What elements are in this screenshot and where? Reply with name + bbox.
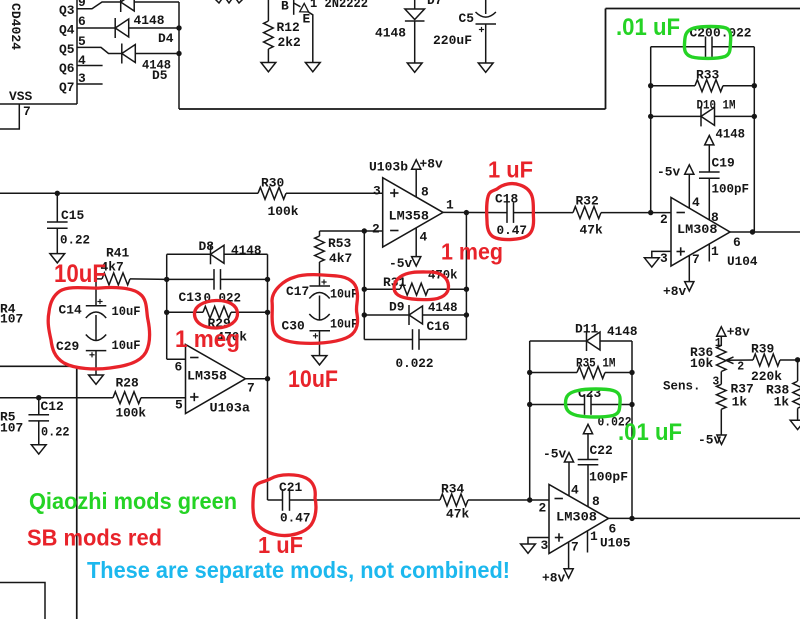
svg-text:10uF: 10uF (330, 317, 358, 332)
svg-text:7: 7 (23, 104, 31, 119)
svg-text:220uF: 220uF (433, 33, 472, 48)
wire C20 row right (712, 46, 754, 48)
wire R36 to R37 (720, 372, 722, 385)
svg-text:4148: 4148 (607, 324, 638, 339)
wire D11 row (530, 340, 587, 342)
wire D3 to bus (134, 1, 179, 3)
wire C23 row (530, 404, 585, 406)
C5 plus mark (479, 29, 484, 31)
red circle around R31 (394, 272, 448, 300)
plus input U104 (677, 251, 685, 253)
wire D9 to rail (423, 314, 467, 316)
svg-text:4: 4 (420, 230, 428, 245)
svg-text:VSS: VSS (9, 89, 32, 104)
svg-text:4148: 4148 (231, 243, 262, 258)
C17 plus mark (321, 281, 326, 283)
svg-text:1 meg: 1 meg (175, 326, 240, 353)
junction D9 right (464, 312, 469, 317)
svg-text:107: 107 (0, 421, 23, 436)
svg-text:10uF: 10uF (330, 287, 358, 302)
junction D10 left (648, 114, 653, 119)
wire U104 pin 3 to ground (652, 251, 671, 257)
resistor R41 (102, 273, 130, 285)
wire right rail x267 (D8 row to C21) (267, 254, 269, 500)
power arrow above C22 (583, 424, 592, 433)
svg-text:D5: D5 (152, 68, 168, 83)
wire D8 to right rail (224, 253, 268, 255)
svg-text:4: 4 (692, 195, 700, 210)
svg-text:0.22: 0.22 (41, 425, 70, 440)
junction U104 output (750, 229, 755, 234)
wire VSS pin 7 stub (0, 104, 19, 129)
svg-text:R28: R28 (116, 376, 139, 391)
resistor R30 (258, 187, 286, 199)
diode D9 (408, 305, 410, 325)
svg-text:6: 6 (175, 360, 183, 375)
wire U103a pin 6 (167, 358, 186, 360)
svg-text:3: 3 (660, 251, 668, 266)
svg-text:1 uF: 1 uF (488, 157, 533, 183)
wire left rail U105 network (529, 341, 531, 500)
svg-text:1: 1 (711, 244, 719, 259)
power arrow -5v U104 pin 4 (685, 165, 694, 174)
wire U104 pin 7 (688, 255, 690, 281)
resistor R32 (573, 207, 601, 219)
junction pin2-rail (362, 228, 367, 233)
junction C23 left (527, 402, 532, 407)
diode D4 (114, 18, 116, 38)
svg-text:-5v: -5v (698, 433, 721, 448)
ground under D7 (407, 63, 422, 72)
svg-text:C18: C18 (495, 192, 518, 207)
C30 plus mark (313, 335, 318, 337)
wire C22 to U105 pin 8 (587, 465, 589, 507)
svg-text:7: 7 (247, 381, 255, 396)
junction U105 pin 2 (527, 497, 532, 502)
resistor R34 (440, 494, 468, 506)
capacitor C20 (705, 37, 707, 58)
wire diode bus vertical (178, 2, 180, 109)
junction D9 left (362, 312, 367, 317)
svg-text:Q6: Q6 (59, 61, 75, 76)
svg-text:U104: U104 (727, 254, 758, 269)
svg-text:7: 7 (692, 252, 700, 267)
minus input U104 (677, 212, 685, 214)
svg-text:2: 2 (737, 361, 744, 374)
svg-text:1k: 1k (774, 395, 790, 410)
junction on bus at D4 row (176, 25, 181, 30)
svg-text:Q3: Q3 (59, 3, 75, 18)
svg-text:47k: 47k (446, 507, 469, 522)
svg-text:+8v: +8v (420, 157, 443, 172)
svg-text:D11: D11 (575, 322, 598, 337)
minus input U105 (555, 498, 563, 500)
svg-text:R39: R39 (751, 342, 774, 357)
wire D9 row (364, 314, 409, 316)
svg-text:.01 uF: .01 uF (618, 419, 682, 446)
junction R33 right (752, 83, 757, 88)
op-amp U105 (549, 484, 609, 553)
svg-text:10k: 10k (690, 356, 713, 371)
capacitor C29 curved plate (86, 335, 106, 341)
resistor R28 (113, 392, 141, 404)
svg-text:D8: D8 (199, 239, 215, 254)
junction U105 output (629, 516, 634, 521)
svg-text:C29: C29 (56, 339, 79, 354)
wire R39 to R38 junction (780, 359, 798, 361)
op-amp U103a (186, 345, 246, 414)
plus input U105 (555, 537, 563, 539)
svg-text:1k: 1k (732, 395, 748, 410)
svg-text:6: 6 (78, 14, 86, 29)
wire U103a pin 5 row (0, 397, 113, 399)
svg-text:10uF: 10uF (288, 366, 338, 393)
wire arrow to C22 (587, 434, 589, 460)
wire mid-left box right edge (76, 366, 78, 619)
junction C13 right (265, 277, 270, 282)
svg-text:10uF: 10uF (112, 338, 141, 353)
transistor Q? 2N2222 (clipped) (293, 0, 295, 15)
junction R29 left (164, 310, 169, 315)
svg-text:8: 8 (421, 185, 429, 200)
wire R41 to feedback box (130, 278, 167, 281)
capacitor C29 straight plate (86, 350, 107, 352)
svg-text:100k: 100k (116, 406, 147, 421)
capacitor C12 (28, 414, 49, 416)
svg-text:C19: C19 (712, 156, 735, 171)
resistor R35 (577, 367, 605, 379)
wire Q4 pin to D4 (77, 27, 115, 29)
capacitor C5 straight plate (476, 23, 497, 25)
power arrow -5v pot (717, 435, 726, 444)
svg-text:4148: 4148 (134, 13, 165, 28)
wire feedback box left edge (166, 254, 168, 359)
resistor (clipped at top edge) (214, 0, 244, 3)
svg-text:R53: R53 (328, 236, 351, 251)
svg-text:.01 uF: .01 uF (616, 14, 680, 41)
wire D4 to bus (129, 27, 179, 29)
svg-text:1: 1 (590, 529, 598, 544)
wire R32 to U104 pin 2 (601, 212, 671, 214)
wire C13 row (167, 278, 214, 280)
wire to D7 (414, 0, 416, 9)
svg-text:-5v: -5v (543, 447, 566, 462)
wire U104 output (730, 231, 800, 233)
svg-text:D9: D9 (389, 300, 404, 315)
svg-text:0.47: 0.47 (280, 511, 311, 526)
junction D10 right (752, 114, 757, 119)
svg-text:CD4024: CD4024 (8, 3, 23, 50)
junction R35 left (527, 370, 532, 375)
svg-text:B: B (281, 0, 289, 14)
junction C12 (36, 395, 41, 400)
capacitor C16 (412, 329, 414, 350)
svg-text:LM358: LM358 (389, 209, 430, 224)
resistor R39 (753, 354, 780, 366)
svg-text:+8v: +8v (542, 571, 565, 586)
ground under C12 (31, 445, 46, 454)
svg-text:10uF: 10uF (112, 304, 141, 319)
svg-text:C16: C16 (427, 319, 450, 334)
wire R37 to -5v (720, 409, 722, 435)
wire R38 to ground (797, 408, 799, 420)
svg-text:4148: 4148 (375, 26, 406, 41)
svg-text:4k7: 4k7 (329, 251, 352, 266)
svg-text:1: 1 (446, 198, 454, 213)
red circle around C21 (253, 475, 316, 536)
junction at C15 (55, 191, 60, 196)
svg-text:D7: D7 (427, 0, 442, 8)
wire C5 to ground (485, 24, 487, 63)
capacitor C17 curved plate (309, 293, 329, 299)
wire R29 row (167, 311, 203, 313)
wire D8 row (167, 253, 211, 255)
wire C21 corner (268, 499, 283, 501)
wire C17 to C30 (319, 296, 321, 321)
resistor R31 (400, 283, 428, 295)
op-amp U103b (383, 178, 443, 247)
wire C21 to R34 (290, 499, 441, 501)
junction C13 left (164, 277, 169, 282)
wire right rail U105 network (631, 341, 633, 518)
wire R38 top (797, 360, 799, 381)
junction R31 left (362, 287, 367, 292)
wire C14 to C29 (95, 315, 97, 341)
svg-text:R41: R41 (106, 246, 129, 261)
svg-text:100pF: 100pF (712, 182, 750, 197)
ground under C5 (478, 63, 493, 72)
wire U105 pin 7 (568, 542, 570, 569)
IC U? CD4024 body (76, 0, 78, 104)
green circle around C23 (566, 389, 621, 417)
green circle around C20 (684, 27, 730, 59)
svg-text:Q5: Q5 (59, 42, 75, 57)
wire rail x364 down (363, 231, 365, 340)
junction R33 left (648, 83, 653, 88)
red circle around C17 C30 (272, 275, 358, 344)
wire to C12 (38, 398, 40, 415)
wire U103b +8v pin 8 (415, 169, 417, 197)
capacitor C21 (282, 489, 284, 511)
svg-text:C13: C13 (179, 290, 202, 305)
ground under C29 (89, 375, 104, 384)
wire top-right box top edge (606, 8, 800, 10)
svg-text:+8v: +8v (727, 325, 750, 340)
capacitor C5 curved plate (476, 12, 496, 17)
svg-text:U105: U105 (600, 536, 631, 551)
wire D11 to right rail (600, 340, 632, 342)
resistor R12 (264, 21, 274, 49)
capacitor C14 curved plate (86, 312, 106, 318)
wire to R12 (267, 0, 269, 21)
svg-text:107: 107 (0, 312, 23, 327)
junction R31 right (464, 287, 469, 292)
wire U103b pin 4 to -5v (415, 228, 417, 257)
power arrow +8v U105 (564, 569, 573, 578)
power arrow +8v pot (717, 327, 726, 336)
plus input U103a (190, 396, 198, 398)
diode D3 (clipped at top) (120, 0, 122, 12)
wire C20 row left (651, 46, 706, 48)
svg-text:R32: R32 (576, 194, 599, 209)
wire mid-left box top (0, 365, 77, 367)
junction U103b output (464, 210, 469, 215)
diode D10 (700, 106, 702, 126)
wire Q5 pin to D5 (77, 47, 122, 53)
ground U104 pin 3 (644, 258, 659, 267)
capacitor C23 (584, 394, 586, 415)
wire main to U103b pin 3 (0, 192, 258, 194)
svg-text:Qiaozhi mods green: Qiaozhi mods green (29, 488, 237, 514)
wire output rail down (465, 213, 467, 340)
wire U103b pin 2 (320, 230, 383, 232)
capacitor C18 (506, 202, 508, 223)
capacitor C13 (213, 269, 215, 290)
red circle around C18 (487, 184, 534, 240)
svg-text:47k: 47k (580, 223, 603, 238)
svg-text:3: 3 (541, 538, 549, 553)
wire arrow to C19 (708, 145, 710, 172)
svg-text:C14: C14 (59, 303, 82, 318)
capacitor C22 (578, 459, 599, 461)
wire R12 to ground (267, 49, 269, 63)
svg-text:2: 2 (372, 222, 380, 237)
wire to C5 (485, 0, 487, 14)
svg-text:LM358: LM358 (187, 369, 227, 384)
svg-text:C22: C22 (590, 443, 613, 458)
wire D10 row (651, 115, 701, 117)
svg-text:R33: R33 (696, 68, 719, 83)
svg-text:E: E (303, 12, 311, 27)
wire C19 to U104 pin 8 (708, 178, 710, 220)
svg-text:Q4: Q4 (59, 23, 75, 38)
svg-text:1 2N2222: 1 2N2222 (310, 0, 368, 11)
power arrow -5v U103b (412, 257, 421, 266)
junction on bus at D5 row (176, 51, 181, 56)
wire C12 to ground (38, 421, 40, 445)
power arrow +8v U104 (685, 282, 694, 291)
wire R33 row (651, 85, 695, 87)
wire R31 row (364, 288, 400, 290)
wire top-right box left edge (605, 9, 607, 110)
svg-text:R34: R34 (441, 482, 464, 497)
red circle around R29 (194, 300, 237, 328)
power arrow +8v U103b (412, 160, 421, 169)
svg-text:0.022: 0.022 (204, 291, 242, 306)
resistor R38 (793, 381, 800, 408)
wire Q7 pin stub (77, 83, 103, 85)
diode D7 (405, 9, 425, 20)
svg-text:8: 8 (592, 494, 600, 509)
minus input U103b (390, 230, 398, 232)
C14 plus mark (97, 301, 102, 303)
capacitor C14 straight plate (86, 305, 107, 307)
svg-text:C30: C30 (282, 319, 305, 334)
svg-text:1 meg: 1 meg (441, 239, 503, 265)
C29 plus mark (89, 354, 94, 356)
svg-text:C5: C5 (459, 11, 475, 26)
wire U105 output (609, 517, 800, 519)
red circle around C14 C29 (48, 288, 149, 369)
capacitor C19 (699, 171, 720, 173)
svg-text:6: 6 (733, 235, 741, 250)
svg-text:LM308: LM308 (677, 222, 718, 237)
wire C16 row (364, 339, 412, 341)
junction R35 right (629, 370, 634, 375)
op-amp U104 (671, 198, 730, 267)
wire C14 to R41 (96, 278, 102, 280)
svg-text:4148: 4148 (716, 127, 746, 142)
wire right rail C20 network (753, 47, 755, 232)
svg-text:100k: 100k (268, 204, 299, 219)
svg-text:1 uF: 1 uF (258, 532, 303, 558)
svg-text:LM308: LM308 (556, 510, 597, 525)
power arrow above C19 (705, 136, 714, 145)
capacitor C30 curved plate (309, 314, 329, 320)
wire pin2 down to R53 (319, 231, 321, 236)
power arrow -5v U105 pin 4 (564, 453, 573, 462)
wire R35 row (530, 372, 577, 374)
svg-text:2: 2 (660, 212, 668, 227)
wire C29 to ground (95, 351, 97, 375)
ground under C15 (50, 254, 65, 263)
svg-text:Q7: Q7 (59, 80, 74, 95)
svg-text:C17: C17 (286, 284, 309, 299)
wire R53 to C17 (319, 262, 321, 286)
wire bus to top-right box (179, 108, 606, 110)
junction C23 right (629, 402, 634, 407)
svg-text:2k2: 2k2 (278, 35, 301, 50)
junction U103a output (265, 376, 270, 381)
junction R29 right (265, 310, 270, 315)
capacitor C15 (47, 221, 68, 223)
svg-text:4148: 4148 (428, 300, 458, 315)
potentiometer R36 (717, 346, 727, 372)
svg-text:5: 5 (175, 398, 183, 413)
wire left rail C20 network (650, 47, 652, 213)
capacitor C30 straight plate (310, 330, 331, 332)
wire U105 pin 1 stub (587, 531, 589, 553)
wire C30 to ground (319, 331, 321, 356)
wire to C15 (56, 193, 58, 222)
ground under R12 (261, 63, 276, 72)
svg-text:6: 6 (609, 522, 617, 537)
svg-text:C21: C21 (279, 480, 302, 495)
svg-text:0.022: 0.022 (396, 356, 434, 371)
wire down to C14 (95, 279, 97, 306)
capacitor C17 straight plate (310, 285, 331, 287)
svg-text:D4: D4 (158, 31, 174, 46)
wire D7 to ground (414, 21, 416, 63)
svg-text:R12: R12 (277, 20, 300, 35)
wire bottom-left box (0, 583, 45, 619)
wire C15 to ground (56, 228, 58, 253)
svg-text:0.47: 0.47 (497, 223, 528, 238)
svg-text:4: 4 (571, 483, 579, 498)
svg-text:10uF: 10uF (54, 260, 106, 288)
diode D11 (586, 331, 588, 351)
wire U104 pin 1 stub (708, 244, 710, 261)
svg-text:3: 3 (373, 184, 381, 199)
wire Q3 pin (77, 2, 121, 9)
wire +8v to R36 (720, 336, 722, 346)
wire R34 to U105 pin 2 (468, 499, 549, 501)
svg-text:100pF: 100pF (589, 470, 628, 485)
ground under R38 (790, 420, 800, 429)
svg-text:C15: C15 (61, 208, 84, 223)
svg-text:D10 1M: D10 1M (697, 98, 736, 113)
wire Q6 pin stub (77, 65, 103, 67)
